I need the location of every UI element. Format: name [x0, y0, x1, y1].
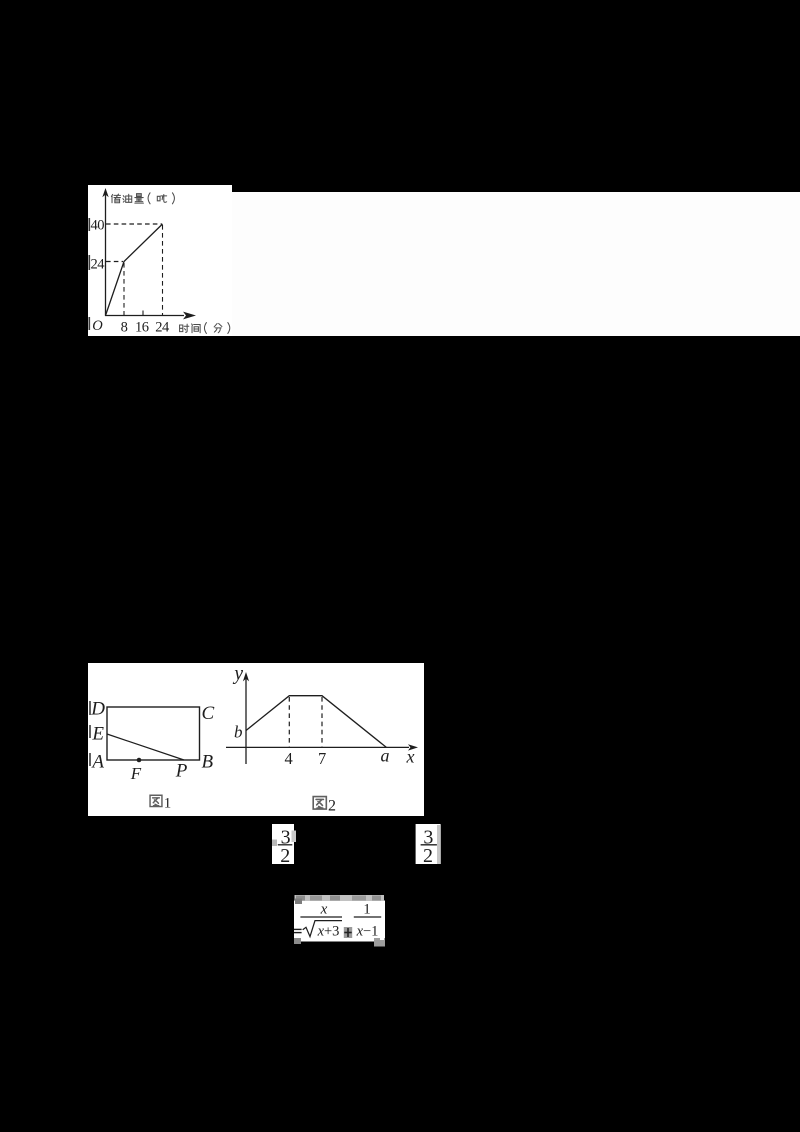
svg-text:F: F: [130, 764, 142, 783]
svg-text:4: 4: [284, 749, 292, 768]
segment E to P: [107, 734, 184, 760]
svg-text:B: B: [202, 752, 214, 773]
caption 图2: [313, 797, 326, 809]
sqrt expression patch: [294, 901, 385, 942]
svg-text:D: D: [90, 699, 105, 720]
rectangle ABCD: [107, 707, 200, 760]
dashed vertical x=24: [162, 225, 164, 315]
y-axis title 储油量（吨）: [111, 194, 120, 203]
svg-text:1: 1: [164, 796, 172, 812]
left edge scan fragment near O: [88, 317, 90, 330]
dashed vertical x=4: [288, 697, 290, 747]
fraction 3/2 left patch: [272, 824, 294, 864]
fraction 3/2 right: bar: [421, 844, 437, 846]
separator plus blob: [344, 927, 352, 938]
svg-text:7: 7: [318, 749, 326, 768]
gray top strip fragments: [295, 895, 385, 901]
second fraction bar: [354, 916, 381, 918]
x-axis: [105, 315, 184, 317]
left edge scan fragment near E: [89, 725, 91, 738]
left edge scan fragment near D: [89, 701, 91, 715]
svg-text:2: 2: [423, 845, 433, 867]
dashed vertical x=7: [321, 697, 323, 747]
first fraction bar: [300, 916, 342, 918]
svg-text:a: a: [381, 746, 390, 766]
trapezoid curve: [246, 696, 386, 748]
fig2 x-axis arrowhead: [408, 744, 418, 750]
radical sign: [303, 921, 342, 937]
y-axis arrowhead: [102, 188, 108, 197]
svg-text:x−1: x−1: [356, 923, 379, 939]
equals sign (cut at left): [294, 928, 302, 930]
top white band: [88, 192, 800, 336]
svg-text:x: x: [406, 747, 415, 767]
svg-text:2: 2: [280, 845, 290, 867]
y-axis: [105, 194, 107, 316]
top figure white patch: [88, 185, 232, 336]
x-axis title 时间（分）: [180, 324, 189, 332]
point F dot: [137, 758, 142, 763]
dashed line y=40: [106, 223, 162, 225]
gray bottom fragments: [294, 938, 301, 944]
svg-text:24: 24: [91, 257, 106, 273]
storage curve: [106, 224, 163, 316]
left edge scan fragment near 24: [88, 255, 90, 270]
svg-text:O: O: [92, 318, 103, 334]
tick at 16: [142, 311, 144, 316]
left edge scan fragment near 40: [88, 218, 90, 231]
dashed line y=24: [106, 261, 123, 263]
svg-text:y: y: [232, 664, 243, 685]
svg-text:40: 40: [91, 218, 105, 234]
svg-text:x: x: [320, 902, 328, 918]
middle white patch (fig1+fig2): [88, 663, 424, 816]
fig2 y-axis: [245, 678, 247, 764]
x-axis arrowhead: [183, 312, 196, 320]
svg-text:2: 2: [328, 798, 336, 815]
svg-text:P: P: [175, 761, 188, 782]
svg-text:16: 16: [135, 319, 149, 335]
caption 图1: [150, 795, 162, 806]
svg-text:E: E: [91, 724, 104, 745]
svg-text:1: 1: [363, 902, 371, 918]
svg-text:C: C: [202, 703, 215, 724]
dashed vertical x=8: [123, 263, 125, 315]
svg-text:b: b: [234, 723, 243, 742]
left edge scan fragment near A: [89, 753, 91, 766]
svg-text:A: A: [90, 752, 104, 773]
svg-text:24: 24: [155, 319, 170, 335]
fraction 3/2 left: bar: [278, 844, 293, 846]
svg-text:x+3: x+3: [317, 923, 340, 939]
fraction 3/2 right patch: [416, 824, 441, 864]
svg-text:8: 8: [121, 319, 128, 335]
fig2 x-axis: [226, 746, 409, 748]
fig2 y-axis arrowhead: [243, 672, 249, 681]
